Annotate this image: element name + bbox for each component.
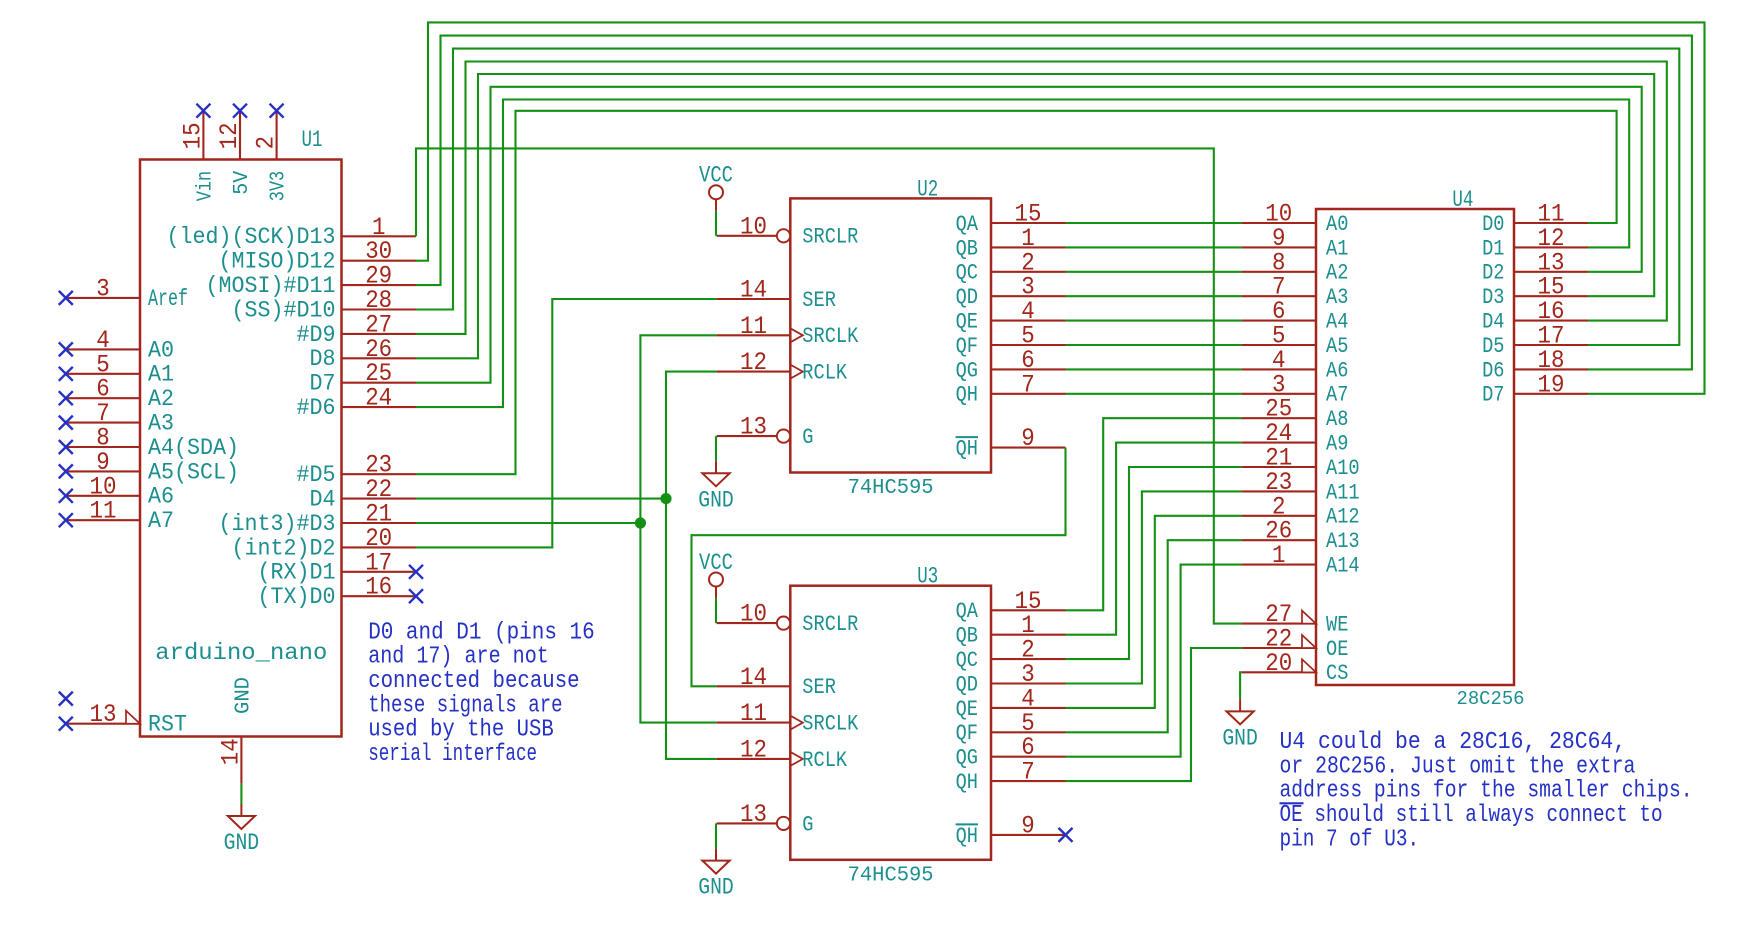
svg-text:A2: A2 (1326, 260, 1348, 286)
svg-text:U3: U3 (917, 564, 938, 590)
wire net U2 QG -> U4 A6 (1066, 368, 1242, 370)
U4 pin 19 D7 (1514, 393, 1588, 395)
wire net #D3 -> U2 SRCLK / U3 SRCLK (416, 522, 640, 524)
wire net U2 QA -> U4 A0 (1066, 222, 1242, 224)
svg-text:A12: A12 (1326, 504, 1360, 530)
U1 pin 8 A4(SDA) (no-connect) (66, 446, 140, 448)
svg-text:QH: QH (956, 769, 978, 795)
svg-text:7: 7 (1021, 758, 1035, 787)
ground symbol below U2 G pin (715, 461, 717, 473)
U3 pin 6 QG (991, 756, 1066, 758)
U1 pin 23 #D5 (342, 473, 417, 475)
U3 pin 14 SER (717, 685, 791, 687)
svg-text:A2: A2 (148, 386, 174, 412)
svg-text:QF: QF (956, 333, 978, 359)
svg-text:Vin: Vin (193, 171, 217, 202)
U1 pin 21 (int3)#D3 (342, 522, 417, 524)
U3 pin 9 QH-bar (991, 834, 1066, 836)
junction on D4 net (660, 493, 671, 504)
svg-text:(MISO)D12: (MISO)D12 (219, 249, 336, 275)
svg-text:A4: A4 (1326, 309, 1348, 335)
wire net U3 QE -> U4 A12 (1066, 516, 1242, 708)
svg-text:OE should still always connect: OE should still always connect to (1280, 802, 1663, 829)
U4 pin 22 OE (active-low) (1242, 647, 1316, 649)
svg-text:12: 12 (215, 122, 244, 149)
U3 pin 12 RCLK (clock) (717, 758, 791, 760)
svg-text:74HC595: 74HC595 (848, 477, 934, 500)
svg-text:11: 11 (740, 312, 767, 341)
U1 pin 6 A2 (no-connect) (66, 397, 140, 399)
svg-text:D1: D1 (1482, 235, 1504, 261)
wire net U2 QE -> U4 A4 (1066, 320, 1242, 322)
svg-text:QH: QH (956, 382, 978, 408)
overline on OE in note (1280, 802, 1304, 804)
no-connect on U1 pin 17 D1 (409, 565, 423, 579)
U3 pin 1 QB (991, 634, 1066, 636)
U2 pin 14 SER (717, 298, 791, 300)
U3 pin 2 QC (991, 658, 1066, 660)
shift register U3 74HC595 body (790, 586, 991, 860)
ground symbol below U3 G pin (715, 849, 717, 861)
U2 pin 6 QG (991, 368, 1066, 370)
svg-text:OE: OE (1326, 636, 1348, 662)
U1 pin 9 A5(SCL) (no-connect) (66, 470, 140, 472)
svg-text:7: 7 (1021, 370, 1035, 399)
svg-text:13: 13 (740, 800, 767, 829)
svg-text:12: 12 (740, 735, 767, 764)
U2 pin 1 QB (991, 246, 1066, 248)
wire net U2 QC -> U4 A2 (1066, 271, 1242, 273)
U4 pin 8 A2 (1242, 271, 1316, 273)
U1 pin 17 (RX)D1 (342, 571, 417, 573)
U1 pin 1 (led)(SCK)D13 (342, 235, 417, 237)
svg-text:D4: D4 (1482, 309, 1504, 335)
svg-text:13: 13 (740, 413, 767, 442)
U4 pin 11 D0 (1514, 222, 1588, 224)
U4 pin 1 A14 (1242, 564, 1316, 566)
svg-text:A3: A3 (1326, 284, 1348, 310)
svg-text:11: 11 (740, 699, 767, 728)
svg-text:A7: A7 (1326, 382, 1348, 408)
svg-text:(TX)D0: (TX)D0 (258, 584, 336, 610)
U3 pin 7 QH (991, 780, 1066, 782)
wire net #D9->D4 (416, 62, 1667, 334)
svg-text:(MOSI)#D11: (MOSI)#D11 (206, 273, 336, 299)
U4 pin 4 A6 (1242, 368, 1316, 370)
U3 pin 10 SRCLR (inverted) (717, 622, 778, 624)
U4 pin 13 D2 (1514, 271, 1588, 273)
svg-text:connected because: connected because (368, 668, 579, 695)
svg-text:D2: D2 (1482, 260, 1504, 286)
wire net U2 QF -> U4 A5 (1066, 344, 1242, 346)
wire net U2 QB -> U4 A1 (1066, 246, 1242, 248)
svg-text:A3: A3 (148, 411, 174, 437)
svg-text:A0: A0 (148, 337, 174, 363)
U1 pin 11 A7 (no-connect) (66, 519, 140, 521)
svg-text:A6: A6 (1326, 357, 1348, 383)
svg-text:A0: A0 (1326, 211, 1348, 237)
wire net D8->D3 (416, 74, 1654, 358)
svg-text:#D6: #D6 (297, 395, 336, 421)
svg-text:20: 20 (1265, 649, 1292, 678)
wire U1 pin14 to GND (240, 784, 242, 804)
svg-text:GND: GND (698, 875, 734, 901)
wire net U3 QC -> U4 A10 (1066, 467, 1242, 659)
svg-text:1: 1 (1272, 541, 1286, 570)
U4 pin 12 D1 (1514, 246, 1588, 248)
svg-text:#D5: #D5 (297, 462, 336, 488)
svg-text:13: 13 (90, 700, 117, 729)
svg-text:D7: D7 (310, 371, 336, 397)
svg-text:SRCLR: SRCLR (802, 611, 858, 637)
EEPROM U4 28C256 body (1316, 209, 1514, 685)
svg-text:9: 9 (1021, 424, 1035, 453)
svg-text:24: 24 (365, 384, 392, 413)
svg-text:pin 7 of U3.: pin 7 of U3. (1280, 826, 1420, 853)
svg-text:16: 16 (365, 573, 392, 602)
U2 pin 11 SRCLK (clock) (717, 334, 791, 336)
U2 pin 12 RCLK (clock) (717, 371, 791, 373)
U2 pin 9 QH-bar (991, 447, 1066, 449)
svg-text:QB: QB (956, 623, 978, 649)
U2 pin 7 QH (991, 393, 1066, 395)
wire net U3 QD -> U4 A11 (1066, 491, 1242, 683)
ground symbol below U1 (240, 804, 242, 816)
svg-text:QA: QA (956, 598, 979, 624)
svg-text:QH: QH (956, 823, 978, 849)
U1 pin 25 D7 (342, 382, 417, 384)
svg-text:WE: WE (1326, 612, 1348, 638)
U4 pin 25 A8 (1242, 417, 1316, 419)
svg-text:#D9: #D9 (297, 322, 336, 348)
svg-text:QE: QE (956, 309, 978, 335)
svg-text:address pins for the smaller c: address pins for the smaller chips. (1280, 778, 1693, 805)
no-connect on U1 pin 16 D0 (409, 589, 423, 603)
U1 pin 26 D8 (342, 357, 417, 359)
svg-text:A1: A1 (1326, 235, 1348, 261)
svg-text:SRCLK: SRCLK (802, 711, 858, 737)
U1 pin 28 (SS)#D10 (342, 308, 417, 310)
wire net U2 QH-bar -> U3 SER (692, 448, 1066, 687)
U3 pin 13 G (inverted) (717, 822, 778, 824)
svg-text:QD: QD (956, 284, 978, 310)
wire net D7->D2 (416, 87, 1642, 383)
wire net #D11->D6 (416, 36, 1692, 370)
U1 pin 13 RST (no-connect, active-low) (66, 723, 140, 725)
svg-text:U4 could be a 28C16, 28C64,: U4 could be a 28C16, 28C64, (1280, 729, 1627, 756)
U1 pin 16 (TX)D0 (342, 595, 417, 597)
U4 pin 2 A12 (1242, 515, 1316, 517)
U1 pin 30 (MISO)D12 (342, 260, 417, 262)
svg-text:19: 19 (1538, 370, 1565, 399)
svg-text:QC: QC (956, 647, 978, 673)
svg-text:A7: A7 (148, 508, 174, 534)
U4 pin 7 A3 (1242, 295, 1316, 297)
U3 pin 5 QF (991, 731, 1066, 733)
U4 pin 6 A4 (1242, 320, 1316, 322)
wire net D4 -> U2 RCLK / U3 RCLK (416, 498, 666, 500)
svg-text:3: 3 (96, 274, 110, 303)
wire net #D6->D1 (416, 100, 1629, 408)
svg-text:A1: A1 (148, 362, 174, 388)
svg-text:QG: QG (956, 745, 978, 771)
svg-text:A8: A8 (1326, 406, 1348, 432)
no-connect on U3 pin 9 (1059, 828, 1073, 842)
svg-text:GND: GND (698, 487, 734, 513)
svg-text:QD: QD (956, 671, 978, 697)
svg-text:QH: QH (956, 436, 978, 462)
svg-text:RCLK: RCLK (802, 747, 847, 773)
svg-text:(int2)D2: (int2)D2 (232, 535, 336, 561)
svg-text:SRCLK: SRCLK (802, 323, 858, 349)
svg-text:A5: A5 (1326, 333, 1348, 359)
svg-text:RCLK: RCLK (802, 360, 847, 386)
U4 pin 26 A13 (1242, 539, 1316, 541)
svg-text:SER: SER (802, 287, 836, 313)
svg-text:28C256: 28C256 (1457, 688, 1525, 710)
wire U2 pin 13 G to ground (715, 436, 717, 461)
wire net U3 QG -> U4 A14 (1066, 565, 1242, 757)
svg-text:14: 14 (740, 276, 767, 305)
junction on #D3 net (635, 517, 646, 528)
svg-text:QF: QF (956, 720, 978, 746)
U1 stray no-connect above RST (59, 692, 73, 706)
U3 pin 11 SRCLK (clock) (717, 722, 791, 724)
U2 pin 3 QD (991, 295, 1066, 297)
U1 pin 12 5V (top, no-connect) (239, 111, 241, 160)
svg-text:or 28C256. Just omit the extra: or 28C256. Just omit the extra (1280, 753, 1636, 780)
U4 pin 23 A11 (1242, 490, 1316, 492)
U1 pin 27 #D9 (342, 333, 417, 335)
svg-text:G: G (802, 424, 813, 450)
U4 pin 17 D5 (1514, 344, 1588, 346)
U1 pin 4 A0 (no-connect) (66, 348, 140, 350)
svg-text:14: 14 (216, 738, 245, 765)
shift register U2 74HC595 body (790, 198, 991, 472)
svg-text:D3: D3 (1482, 284, 1504, 310)
wire net U3 QF -> U4 A13 (1066, 540, 1242, 732)
svg-text:G: G (802, 811, 813, 837)
U2 pin 13 G (inverted) (717, 435, 778, 437)
svg-text:A14: A14 (1326, 553, 1360, 579)
svg-text:QE: QE (956, 696, 978, 722)
svg-text:5V: 5V (230, 171, 254, 195)
svg-text:GND: GND (224, 830, 260, 856)
U1 pin 20 (int2)D2 (342, 546, 417, 548)
svg-text:A9: A9 (1326, 431, 1348, 457)
svg-text:used by the USB: used by the USB (368, 717, 554, 744)
svg-text:2: 2 (252, 136, 281, 150)
U4 pin 10 A0 (1242, 222, 1316, 224)
wire net D12->D7 (416, 22, 1705, 393)
svg-text:(RX)D1: (RX)D1 (258, 560, 336, 586)
svg-text:GND: GND (1222, 725, 1258, 751)
svg-text:these signals are: these signals are (368, 692, 562, 719)
svg-text:A10: A10 (1326, 455, 1360, 481)
U1 pin 3 Aref (no-connect) (66, 297, 140, 299)
wire net D2 -> U2 SER (416, 299, 717, 547)
microcontroller U1 arduino_nano body (140, 160, 342, 737)
U2 pin 2 QC (991, 271, 1066, 273)
svg-text:15: 15 (178, 122, 207, 149)
svg-text:QC: QC (956, 260, 978, 286)
wire net U3 QA -> U4 A8 (1066, 418, 1242, 610)
U4 pin 18 D6 (1514, 368, 1588, 370)
svg-text:QB: QB (956, 235, 978, 261)
svg-text:10: 10 (740, 600, 767, 629)
wire net #D5->D0 (416, 111, 1617, 474)
U1 pin 24 #D6 (342, 406, 417, 408)
svg-text:QA: QA (956, 211, 979, 237)
svg-text:GND: GND (231, 677, 255, 714)
svg-text:CS: CS (1326, 660, 1348, 686)
svg-text:(led)(SCK)D13: (led)(SCK)D13 (167, 224, 336, 250)
svg-text:(SS)#D10: (SS)#D10 (232, 297, 336, 323)
svg-text:arduino_nano: arduino_nano (155, 640, 327, 667)
U1 pin 29 (MOSI)#D11 (342, 284, 417, 286)
svg-text:D0: D0 (1482, 211, 1504, 237)
svg-text:D5: D5 (1482, 333, 1504, 359)
svg-text:U1: U1 (302, 127, 323, 153)
svg-text:SRCLR: SRCLR (802, 224, 858, 250)
wire VCC to U2 pin 10 (715, 211, 717, 236)
svg-text:(int3)#D3: (int3)#D3 (219, 511, 336, 537)
wire U4 pin 20 CS to ground (1240, 672, 1242, 699)
U2 pin 4 QE (991, 320, 1066, 322)
svg-text:9: 9 (1021, 811, 1035, 840)
U4 pin 24 A9 (1242, 442, 1316, 444)
svg-text:SER: SER (802, 674, 836, 700)
wire net U3 QH -> U4 OE (1066, 648, 1242, 781)
wire net D13 -> U4 WE (416, 148, 1242, 623)
svg-text:QG: QG (956, 357, 978, 383)
U4 pin 27 WE (active-low) (1242, 623, 1316, 625)
svg-text:3V3: 3V3 (267, 171, 291, 202)
wire net U2 QD -> U4 A3 (1066, 295, 1242, 297)
svg-text:U2: U2 (917, 176, 938, 202)
svg-text:A6: A6 (148, 484, 174, 510)
U4 pin 3 A7 (1242, 393, 1316, 395)
U1 pin 22 D4 (342, 498, 417, 500)
svg-text:D8: D8 (310, 346, 336, 372)
svg-text:A4(SDA): A4(SDA) (148, 435, 239, 461)
svg-text:A11: A11 (1326, 479, 1360, 505)
svg-text:and 17) are not: and 17) are not (368, 644, 549, 671)
svg-text:D6: D6 (1482, 357, 1504, 383)
U4 pin 5 A5 (1242, 344, 1316, 346)
svg-text:74HC595: 74HC595 (848, 864, 934, 887)
U4 pin 21 A10 (1242, 466, 1316, 468)
wire net U2 QH -> U4 A7 (1066, 393, 1242, 395)
svg-text:12: 12 (740, 348, 767, 377)
U3 pin 15 QA (991, 609, 1066, 611)
wire U3 pin 13 G to ground (715, 823, 717, 848)
svg-text:serial interface: serial interface (368, 741, 537, 768)
svg-text:RST: RST (148, 712, 187, 738)
svg-text:14: 14 (740, 663, 767, 692)
U1 pin 5 A1 (no-connect) (66, 373, 140, 375)
U4 pin 15 D3 (1514, 295, 1588, 297)
svg-text:A13: A13 (1326, 528, 1360, 554)
svg-text:D4: D4 (310, 487, 336, 513)
U1 pin 15 Vin (top, no-connect) (202, 111, 204, 160)
svg-text:D0 and D1 (pins 16: D0 and D1 (pins 16 (368, 619, 595, 646)
U1 pin 2 3V3 (top, no-connect) (276, 111, 278, 160)
wire net #D10->D5 (416, 49, 1679, 345)
U1 pin 7 A3 (no-connect) (66, 422, 140, 424)
wire net U3 QB -> U4 A9 (1066, 443, 1242, 635)
svg-text:D7: D7 (1482, 382, 1504, 408)
U2 pin 5 QF (991, 344, 1066, 346)
U2 pin 10 SRCLR (inverted) (717, 235, 778, 237)
U4 pin 16 D4 (1514, 320, 1588, 322)
U3 pin 3 QD (991, 682, 1066, 684)
svg-text:Aref: Aref (148, 286, 188, 312)
ground symbol below U4 CS (1239, 699, 1241, 711)
U2 pin 15 QA (991, 222, 1066, 224)
U3 pin 4 QE (991, 707, 1066, 709)
U1 pin 10 A6 (no-connect) (66, 495, 140, 497)
U1 pin 14 GND (bottom) (240, 737, 242, 784)
wire VCC to U3 pin 10 (715, 598, 717, 623)
U4 pin 20 CS (active-low) (1242, 671, 1316, 673)
svg-text:10: 10 (740, 212, 767, 241)
U4 pin 9 A1 (1242, 246, 1316, 248)
svg-text:U4: U4 (1452, 187, 1473, 213)
svg-text:A5(SCL): A5(SCL) (148, 459, 239, 485)
svg-text:11: 11 (90, 497, 117, 526)
